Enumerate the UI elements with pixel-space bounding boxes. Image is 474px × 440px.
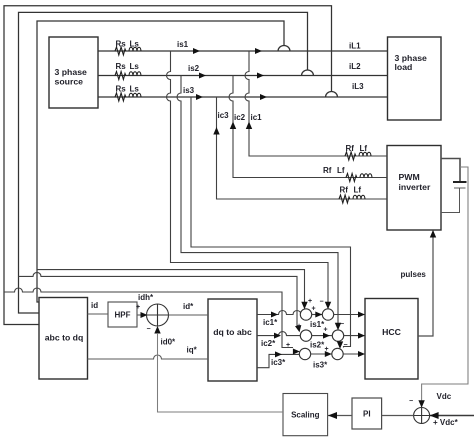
arrow phase2 toward load	[257, 73, 264, 79]
wire phase line 2 source to load	[98, 75, 388, 77]
wire id* : S1 to dq-to-abc	[169, 314, 209, 316]
resistor Rs / inductor Ls phase 1	[115, 47, 141, 55]
arrow into Scaling	[328, 412, 337, 419]
svg-text:HCC: HCC	[382, 327, 402, 337]
svg-text:id: id	[91, 301, 98, 310]
wire PI to Scaling	[328, 415, 352, 417]
summing junction C3L	[299, 348, 310, 359]
svg-text:is3: is3	[183, 86, 195, 95]
svg-text:id*: id*	[183, 302, 194, 311]
box 3 phase load	[388, 37, 442, 120]
svg-text:idh*: idh*	[138, 293, 154, 302]
svg-text:ic1: ic1	[251, 113, 263, 122]
wire C1R to HCC	[334, 314, 365, 316]
arrow iL1 into C1L top	[301, 302, 307, 310]
svg-text:Vdc: Vdc	[437, 392, 452, 401]
box PWM inverter	[387, 146, 441, 231]
svg-text:is1: is1	[177, 40, 189, 49]
arrow is1*	[315, 312, 322, 318]
box Scaling	[283, 394, 328, 436]
svg-text:Lf: Lf	[360, 144, 368, 153]
wire Scaling output: left then up to S1 bottom (id0*)	[158, 333, 284, 412]
resistor Rf / inductor Lf branch 2	[346, 174, 372, 182]
arrow ic1 (up, mid-wire)	[246, 122, 252, 130]
arrow is1	[193, 48, 200, 54]
wire is3 measurement tap: down from phase3, right, down to sum node	[191, 97, 351, 348]
svg-text:id0*: id0*	[161, 338, 177, 347]
arrow phase3 toward load	[260, 94, 267, 100]
wire ic3 injection: from phase3 down to filter branch 3	[217, 97, 388, 199]
svg-text:−: −	[340, 321, 344, 328]
summing junction Vdc	[414, 408, 430, 424]
wire is2 measurement tap: down from phase2, hops over phase3, right, down to sum node	[177, 76, 338, 328]
arrow Vdc* into summer	[430, 412, 439, 419]
svg-text:Ls: Ls	[130, 85, 140, 94]
arrow is3*	[325, 351, 332, 357]
arrow is3 into C3R top	[337, 341, 343, 349]
wire Vdc summer to PI	[382, 415, 414, 417]
arrow ic2 (up, mid-wire)	[230, 122, 236, 130]
wire iL1 feedback: from CT tap up, left across top, down left side, right to summing input, into abc-to-dq	[37, 21, 284, 302]
svg-text:Rf: Rf	[346, 144, 355, 153]
svg-text:+: +	[136, 304, 140, 311]
svg-text:iL3: iL3	[352, 82, 364, 91]
svg-text:Rf: Rf	[340, 186, 349, 195]
svg-text:is3*: is3*	[313, 361, 328, 370]
arrow into summer S1	[141, 312, 148, 318]
svg-text:3 phase: 3 phase	[55, 67, 88, 77]
summing junction C3R	[332, 348, 343, 359]
svg-text:ic2: ic2	[234, 113, 246, 122]
svg-text:−: −	[320, 299, 324, 306]
arrow iL2 into C2L top-left	[295, 325, 301, 332]
svg-text:Rs: Rs	[116, 85, 127, 94]
arrow id0* into S1 bottom	[154, 326, 160, 334]
svg-text:ic1*: ic1*	[263, 318, 278, 327]
wire phase line 1 source to load	[98, 50, 388, 52]
svg-text:Ls: Ls	[130, 40, 140, 49]
svg-text:ic3*: ic3*	[271, 358, 286, 367]
svg-text:iL1: iL1	[349, 42, 361, 51]
svg-text:Rs: Rs	[116, 40, 127, 49]
svg-text:source: source	[55, 77, 84, 87]
svg-text:inverter: inverter	[399, 182, 431, 192]
arrow phase1 toward load	[255, 48, 262, 54]
wire iq* : abc-to-dq to dq-to-abc (hops over id0 vertical)	[88, 355, 209, 359]
svg-text:load: load	[395, 62, 413, 72]
svg-text:iL2: iL2	[349, 62, 361, 71]
svg-text:+: +	[286, 342, 290, 349]
arrow into HCC row1	[358, 312, 365, 318]
svg-text:+: +	[324, 327, 328, 334]
svg-text:+: +	[297, 323, 301, 330]
node CT tap iL2	[302, 70, 314, 76]
wire ic3* : dq-to-abc lower port up to summer C3L	[257, 354, 299, 367]
arrow is2	[199, 73, 206, 79]
resistor Rf / inductor Lf branch 3	[339, 195, 365, 203]
wire C2R to HCC	[344, 335, 365, 337]
wire is1 measurement tap: down from phase1, hops over phase2 and phase3, right, down to sum node	[167, 51, 329, 306]
wire pulses: HCC output up to PWM inverter	[418, 230, 433, 336]
svg-text:pulses: pulses	[401, 270, 427, 279]
svg-text:+: +	[308, 298, 312, 305]
svg-text:PI: PI	[363, 410, 371, 419]
svg-text:−: −	[344, 342, 348, 349]
summing junction C2R	[332, 330, 343, 341]
svg-text:Rf: Rf	[323, 166, 332, 175]
arrow Vdc into summer top	[418, 400, 424, 408]
wire Vdc sense: from dc bus down right side to Vdc summer	[422, 167, 468, 407]
wire ic2 injection: from phase2 down, hops phase3, to filter branch 2	[229, 76, 387, 178]
arrow ic3*	[275, 351, 282, 357]
box 3 phase source	[49, 37, 98, 108]
svg-text:abc to dq: abc to dq	[45, 333, 84, 343]
wire iL3 feedback horizontal run to summers (hops over iL2 and iL1 verticals)	[4, 288, 293, 348]
node CT tap iL3	[326, 92, 338, 98]
wire is2* C2L to C2R	[312, 335, 333, 337]
resistor Rs / inductor Ls phase 2	[115, 72, 141, 80]
svg-text:ic3: ic3	[218, 111, 230, 120]
svg-text:+ Vdc*: + Vdc*	[433, 418, 459, 427]
summing junction C1L	[300, 309, 311, 320]
arrow is3	[196, 94, 203, 100]
wire PWM inverter dc bus bottom	[441, 188, 460, 213]
arrow into HCC row2	[358, 333, 365, 339]
svg-text:PWM: PWM	[399, 172, 420, 182]
wire phase line 3 source to load	[98, 96, 388, 98]
wire id: abc-to-dq to HPF	[88, 313, 109, 315]
arrow ic1*	[271, 312, 278, 318]
wire is1* C1L to C1R	[312, 314, 323, 316]
svg-text:iq*: iq*	[187, 346, 198, 355]
arrow into HCC row3	[358, 351, 365, 357]
svg-text:Lf: Lf	[354, 186, 362, 195]
arrow is1 into C1R top	[325, 302, 331, 310]
summing junction C1R	[322, 309, 333, 320]
arrow ic3 (up, mid-wire)	[213, 127, 219, 135]
svg-text:+: +	[325, 346, 329, 353]
node CT tap iL1 (half-circle sensor on phase1)	[278, 46, 290, 51]
summing junction C2L	[300, 330, 311, 341]
wire is3* C3L to C3R	[311, 353, 332, 355]
svg-text:−: −	[409, 398, 413, 405]
svg-text:Rs: Rs	[116, 62, 127, 71]
summing junction S1	[147, 304, 169, 326]
svg-text:ic2*: ic2*	[261, 339, 276, 348]
svg-text:dq to abc: dq to abc	[213, 327, 252, 337]
arrow pulses into PWM inverter	[430, 230, 436, 238]
resistor Rf / inductor Lf branch 1	[345, 152, 371, 160]
svg-text:HPF: HPF	[115, 311, 131, 320]
wire iL2 feedback horizontal run to summers (hops over iL1 vertical)	[19, 272, 298, 327]
svg-text:+: +	[312, 306, 316, 313]
wire iL1 feedback horizontal run to summers	[37, 270, 305, 306]
box abc to dq	[39, 298, 88, 380]
svg-text:Ls: Ls	[130, 62, 140, 71]
wire C3R to HCC	[343, 353, 365, 355]
arrow is2 into C2R top	[335, 323, 341, 331]
svg-text:is2: is2	[188, 64, 200, 73]
wire ic2* : dq-to-abc to summer C2L (hop over iL3 vertical)	[257, 332, 300, 336]
arrow ic2*	[274, 333, 281, 339]
box HPF	[108, 302, 137, 327]
arrow is2*	[323, 333, 330, 339]
wire Vdc* reference input from right edge	[430, 415, 474, 417]
capacitor Cdc bottom plate	[454, 187, 466, 189]
capacitor Cdc top plate	[453, 181, 467, 183]
wire ic1* : dq-to-abc to summer C1L (hops over feedback verticals)	[257, 311, 301, 315]
svg-text:is2*: is2*	[310, 341, 325, 350]
wire HPF to summer S1	[137, 314, 147, 316]
resistor Rs / inductor Ls phase 3	[115, 93, 141, 101]
wire iL2 feedback: from CT tap up, left, down, into abc-to-dq	[19, 12, 308, 313]
box HCC	[365, 299, 418, 380]
svg-text:Lf: Lf	[337, 166, 345, 175]
arrow iL3 into C3L upper-left	[293, 349, 300, 355]
wire ic1 injection: from phase1 down, hops phase2/phase3, to filter branch 1	[245, 51, 387, 156]
svg-text:−: −	[147, 326, 151, 333]
box dq to abc	[208, 299, 257, 381]
wire iL3 feedback: from CT tap up, left, down, into abc-to-dq	[4, 6, 332, 325]
box PI	[352, 398, 382, 429]
wire PWM inverter dc bus top	[441, 159, 460, 183]
svg-text:Scaling: Scaling	[291, 411, 320, 420]
